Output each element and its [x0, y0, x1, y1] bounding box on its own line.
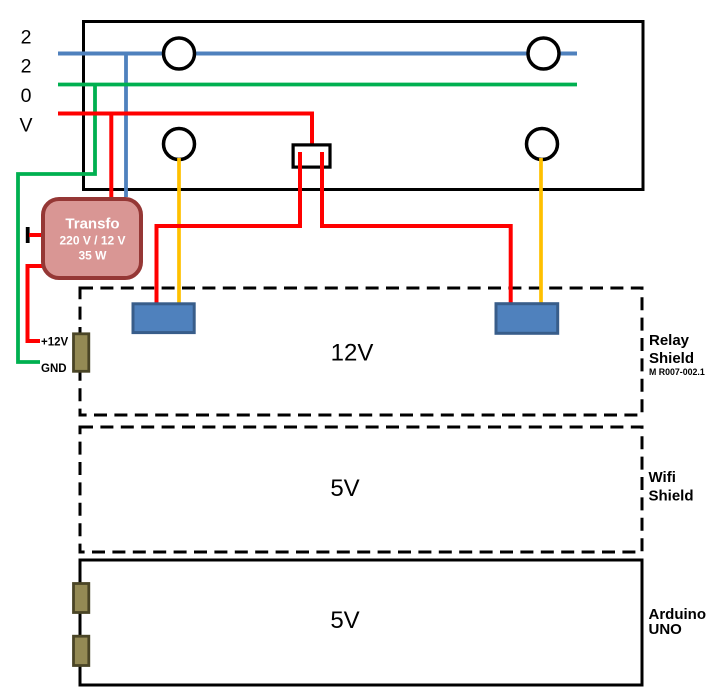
wire blue neutral line: [58, 52, 577, 56]
junction box (220V ceiling box): [84, 22, 644, 190]
wire yellow lamp2 to relay K2: [539, 158, 543, 303]
wire plug to transformer: [29, 233, 42, 237]
svg-text:Relay: Relay: [649, 332, 690, 349]
relay shield boundary: [80, 288, 642, 415]
svg-text:Shield: Shield: [649, 488, 694, 505]
wire yellow lamp1 to relay K1: [177, 158, 181, 303]
svg-text:Wifi: Wifi: [649, 469, 676, 486]
svg-text:35 W: 35 W: [78, 249, 107, 263]
label Arduino UNO: [649, 606, 707, 638]
svg-text:2: 2: [21, 56, 32, 78]
wire blue to transformer: [124, 54, 128, 198]
label Wifi Shield: [649, 469, 694, 505]
connector F1 (relay shield 12V input): [74, 334, 89, 372]
svg-text:5V: 5V: [330, 475, 359, 502]
svg-text:+12V: +12V: [41, 337, 69, 349]
wire red to transformer: [109, 114, 113, 198]
wire red live line: [58, 114, 312, 147]
wire green to GND: [18, 85, 95, 363]
relay module K1: [133, 304, 194, 333]
lamp socket bottom-left: [164, 129, 195, 160]
wire red switch to relay K2: [322, 152, 511, 303]
svg-text:Shield: Shield: [649, 350, 694, 367]
wire red switch to relay K1: [157, 152, 301, 303]
connector J1 (arduino power): [74, 584, 89, 613]
wire red transformer to +12V: [28, 266, 43, 341]
svg-text:0: 0: [21, 85, 32, 107]
power plug terminal: [26, 227, 30, 243]
svg-text:2: 2: [21, 26, 32, 48]
svg-text:UNO: UNO: [649, 621, 683, 638]
label Relay Shield: [649, 332, 694, 367]
svg-text:GND: GND: [41, 363, 67, 375]
svg-text:V: V: [19, 115, 32, 137]
svg-text:M R007-002.1: M R007-002.1: [649, 367, 705, 377]
relay module K2: [496, 304, 558, 334]
transformer T1: [43, 199, 141, 278]
svg-text:12V: 12V: [331, 340, 374, 367]
svg-text:Transfo: Transfo: [65, 216, 119, 233]
lamp socket top-left: [164, 38, 195, 69]
connector J2 (arduino usb): [74, 636, 89, 665]
wifi shield boundary: [80, 427, 642, 552]
arduino uno board: [80, 560, 642, 685]
lamp socket top-right: [528, 38, 559, 69]
switch S1: [293, 145, 330, 167]
lamp socket bottom-right: [527, 129, 558, 160]
svg-text:220 V / 12 V: 220 V / 12 V: [59, 234, 125, 248]
label 220V: [19, 26, 32, 136]
svg-text:5V: 5V: [330, 607, 359, 634]
wire green earth line: [58, 83, 577, 87]
